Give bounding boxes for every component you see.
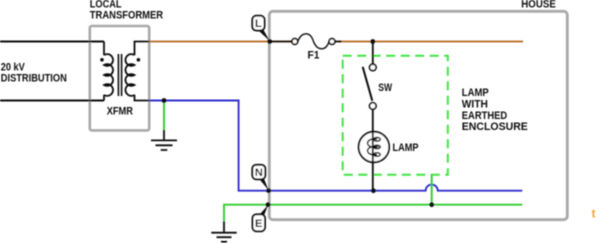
svg-text:DISTRIBUTION: DISTRIBUTION [1, 72, 67, 84]
svg-text:SW: SW [378, 82, 392, 94]
svg-text:LAMP: LAMP [393, 142, 419, 154]
svg-text:WITH: WITH [462, 99, 488, 111]
svg-text:ENCLOSURE: ENCLOSURE [462, 121, 528, 133]
svg-text:E: E [255, 218, 262, 230]
svg-text:XFMR: XFMR [107, 105, 133, 117]
svg-text:LAMP: LAMP [462, 87, 489, 99]
svg-text:L: L [255, 18, 262, 30]
svg-text:F1: F1 [308, 50, 320, 62]
svg-text:TRANSFORMER: TRANSFORMER [90, 9, 163, 21]
svg-text:N: N [255, 167, 263, 179]
svg-text:t: t [592, 207, 596, 221]
svg-text:HOUSE: HOUSE [521, 0, 556, 10]
svg-text:EARTHED: EARTHED [462, 110, 507, 122]
